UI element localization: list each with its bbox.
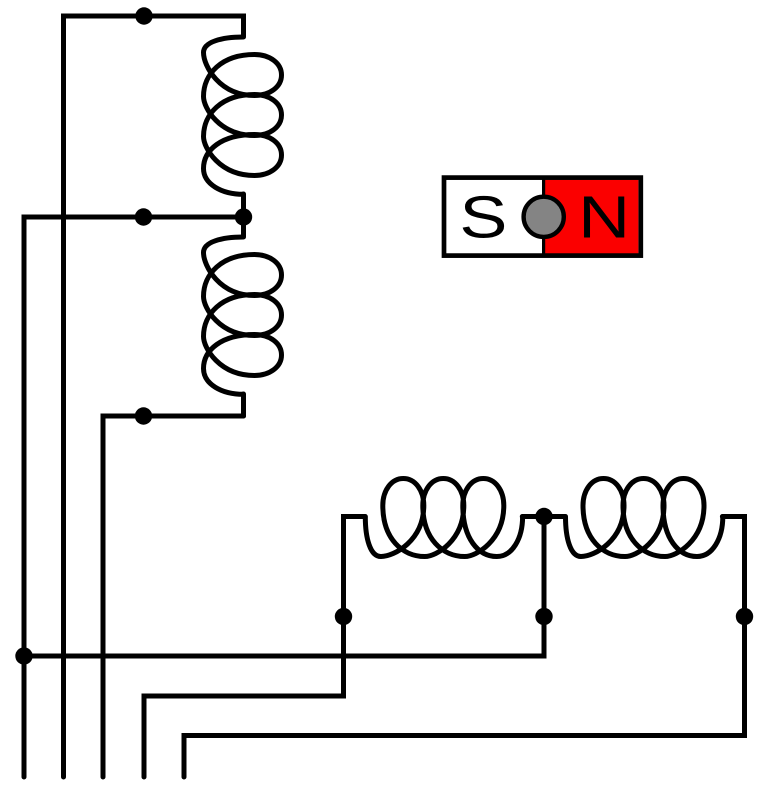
wire left vertical A + top horizontal + stub to coil L1 <box>64 16 244 777</box>
wire left vertical C + horizontal 3 <box>103 416 244 777</box>
node dot junction L3/L4 <box>535 508 552 525</box>
svg-text:N: N <box>578 183 630 250</box>
wire long horizontal 4 + riser to coil junction <box>24 517 544 657</box>
wire left vertical B + horizontal 2 <box>24 217 244 777</box>
node dot on right vertical <box>736 608 753 625</box>
node dot on vertical of coil L3 <box>335 608 352 625</box>
svg-text:S: S <box>459 183 507 250</box>
node dot junction horizontal 4 / vertical B <box>15 647 32 664</box>
inductor L4 (horizontal coil, right) <box>566 479 723 557</box>
wire coil L4 exit + right vertical + bottom horizontal 5 + vertical E <box>184 517 745 778</box>
node dot on horizontal 2 <box>135 208 152 225</box>
inductor L2 (vertical coil, bottom) <box>204 237 282 394</box>
magnet divider line <box>542 178 545 255</box>
node dot on horizontal 3 <box>135 407 152 424</box>
wire between coil L3 and coil L4 <box>522 514 565 519</box>
magnet red north half <box>544 180 639 254</box>
magnet pivot circle <box>524 197 564 237</box>
wire coil L2 exit stub <box>241 394 246 416</box>
inductor L3 (horizontal coil, left) <box>365 479 522 557</box>
node dot junction L1/L2 <box>235 208 252 225</box>
magnet body border <box>444 178 641 256</box>
inductor L1 (vertical coil, top) <box>204 37 282 194</box>
node dot on horizontal 1 <box>135 7 152 24</box>
wire stub between coil L1 and coil L2 <box>241 194 246 237</box>
wire vertical D + horizontal 696 + coil L3 left leg <box>144 517 365 778</box>
node dot on riser to coil junction <box>535 608 552 625</box>
